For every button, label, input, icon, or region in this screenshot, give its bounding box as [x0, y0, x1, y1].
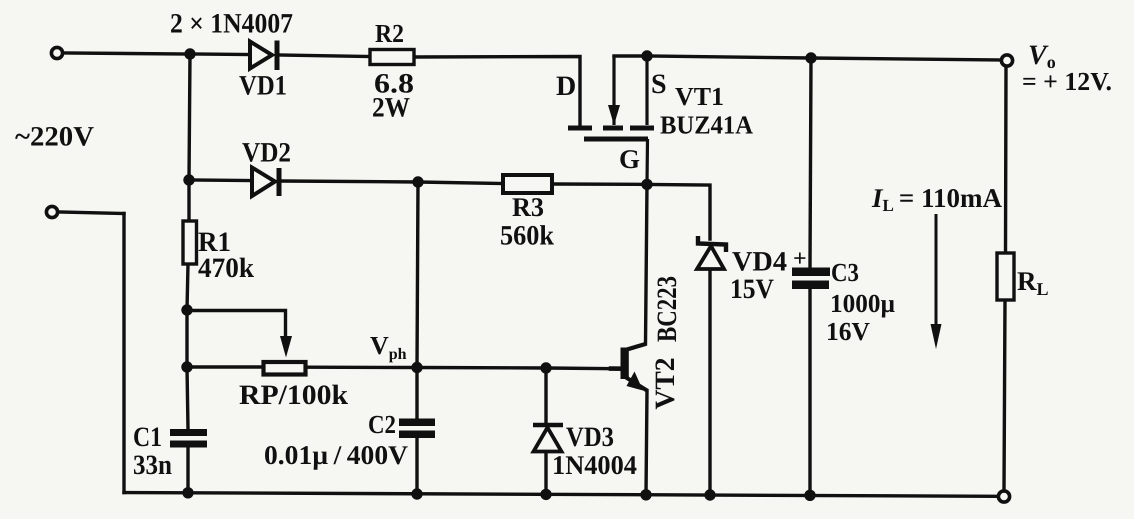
svg-text:VD3: VD3	[566, 422, 614, 453]
mosfet VT1 gate lead	[645, 139, 649, 184]
mosfet VT1 gate plate	[584, 137, 648, 142]
svg-text:2W: 2W	[372, 93, 410, 124]
resistor RL	[997, 253, 1014, 300]
wire R2 to drain corner	[414, 57, 580, 126]
terminal output Vo	[1001, 55, 1012, 66]
svg-text:1000µ: 1000µ	[830, 289, 895, 318]
node ground C3 junction	[804, 490, 815, 501]
mosfet VT1 source lead	[645, 56, 648, 125]
svg-text:R3: R3	[512, 192, 544, 222]
node ground C1 junction	[182, 487, 193, 498]
svg-text:G: G	[619, 144, 640, 174]
svg-text:C1: C1	[133, 422, 162, 453]
mosfet VT1 body bar	[603, 126, 623, 131]
node J1	[184, 48, 195, 59]
wire output terminal down to RL	[1004, 67, 1008, 253]
svg-text:VT2: VT2	[650, 358, 681, 410]
node VD2/R1 junction	[183, 174, 194, 185]
wire C2 bottom to ground	[415, 438, 418, 494]
node Vph left junction	[181, 361, 192, 372]
svg-text:C2: C2	[368, 410, 396, 439]
node ground C2 junction	[411, 488, 422, 499]
wire Vph junction down to C1	[187, 367, 188, 429]
svg-text:~220V: ~220V	[15, 122, 94, 153]
terminal output bottom	[998, 491, 1009, 502]
svg-text:15V: 15V	[730, 274, 774, 305]
terminal input bottom	[46, 206, 57, 217]
node wiper junction	[181, 304, 192, 315]
svg-text:BC223: BC223	[652, 276, 683, 342]
node ground VD4 junction	[704, 489, 715, 500]
resistor R2	[370, 50, 414, 65]
svg-text:VD2: VD2	[242, 138, 291, 169]
wire C1 bottom to ground rail	[186, 448, 189, 493]
wire C2 vertical to plates	[415, 368, 418, 419]
wire ground rail	[124, 493, 996, 497]
capacitor C1	[170, 429, 207, 448]
wire RL bottom to output bottom terminal	[1004, 300, 1005, 490]
capacitor C2	[399, 419, 435, 439]
node C3 top junction	[805, 52, 816, 63]
svg-text:R2: R2	[375, 19, 404, 48]
mosfet VT1 body lead with arrow	[608, 56, 620, 125]
wire C2 vertical top part	[417, 182, 418, 368]
transistor VT2 base bar	[621, 348, 629, 380]
wire VD2 rail: junction to VD2 anode	[189, 178, 250, 182]
wire VD3 branch lower	[544, 452, 547, 494]
potentiometer RP wiper arrow	[280, 336, 292, 358]
wire left vertical down	[122, 214, 125, 493]
wire C3 lower	[808, 289, 811, 495]
node S junction	[641, 50, 652, 61]
wire VD1 cathode to R2	[277, 55, 370, 57]
transistor VT2 collector	[624, 344, 646, 351]
wire VT2 collector up to gate junction	[646, 184, 648, 344]
node Vph C2 junction	[411, 362, 422, 373]
svg-text:BUZ41A: BUZ41A	[660, 111, 753, 140]
svg-text:2 × 1N4007: 2 × 1N4007	[170, 9, 293, 40]
svg-text:0.01µ / 400V: 0.01µ / 400V	[264, 440, 409, 470]
svg-text:560k: 560k	[500, 221, 554, 252]
wire VD3 branch upper	[544, 368, 547, 423]
node C2 top junction	[412, 176, 423, 187]
svg-text:D: D	[556, 71, 576, 102]
svg-text:RP/100k: RP/100k	[239, 380, 348, 411]
node ground VD3 junction	[540, 489, 551, 500]
wire VD4 lower	[708, 269, 711, 495]
node ground VT2 junction	[640, 489, 651, 500]
wire VD2 cathode to R3	[281, 181, 503, 184]
resistor R1	[183, 221, 197, 264]
wire J1 to VD1 anode	[190, 52, 250, 56]
wire wiper branch	[187, 311, 286, 343]
svg-text:VT1: VT1	[675, 82, 724, 111]
potentiometer RP body	[264, 362, 306, 375]
svg-text:S: S	[651, 69, 667, 100]
svg-text:16V: 16V	[826, 317, 870, 346]
wire top rail left segment	[63, 53, 190, 54]
svg-text:C3: C3	[831, 258, 859, 287]
wire top rail right segment	[647, 56, 1007, 60]
zener diode VD4	[697, 236, 726, 269]
mosfet VT1 drain bar	[568, 126, 592, 131]
wire Vph rail RP right to VT2 base	[307, 367, 613, 369]
arrow IL load current	[931, 214, 942, 349]
wire mosfet body top to source junction	[614, 54, 647, 57]
svg-text:1N4004: 1N4004	[552, 450, 637, 480]
wire VT2 emitter down to ground	[646, 391, 647, 495]
svg-text:VD1: VD1	[239, 71, 287, 102]
svg-text:33n: 33n	[133, 450, 172, 481]
diode VD3	[533, 425, 563, 452]
wire J1 down to R1	[189, 54, 190, 221]
wire C3 vertical upper	[810, 58, 811, 267]
svg-text:= + 12V.: = + 12V.	[1022, 67, 1112, 96]
wire R3 to gate junction	[552, 182, 647, 186]
capacitor C3	[792, 268, 830, 290]
diode VD2	[252, 168, 279, 197]
svg-text:470k: 470k	[198, 253, 254, 284]
resistor R3	[503, 175, 552, 193]
terminal input top	[51, 47, 62, 58]
mosfet VT1 source bar	[630, 126, 654, 131]
wire gate junction to VD4 corner	[647, 184, 710, 239]
node VD3 top junction	[540, 362, 551, 373]
wire T2 to left corner	[59, 212, 124, 214]
transistor VT2 emitter with arrow	[625, 372, 648, 391]
wire Vph rail RP left	[187, 365, 262, 368]
diode VD1	[250, 41, 277, 71]
node G junction	[641, 179, 652, 190]
svg-text:VD4: VD4	[732, 247, 787, 278]
wire R1 bottom to wiper junction to Vph junction	[187, 264, 188, 367]
wire VT2 base stub	[611, 366, 622, 371]
